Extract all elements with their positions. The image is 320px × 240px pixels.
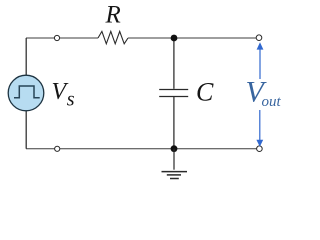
- label Vout: [246, 76, 282, 110]
- terminal top-left: [54, 35, 59, 40]
- svg-text:s: s: [67, 89, 75, 111]
- label Vs: [52, 79, 75, 111]
- terminal bottom-right: [257, 146, 263, 152]
- node A top (R-C junction): [171, 35, 178, 42]
- svg-text:C: C: [196, 77, 214, 106]
- source Vs (square-wave generator): [8, 75, 44, 111]
- wire top horizontal: [26, 37, 256, 39]
- Vout arrow upper (points up): [257, 42, 264, 79]
- svg-text:out: out: [262, 94, 282, 110]
- capacitor C: [159, 90, 188, 97]
- label R: [105, 1, 121, 28]
- label C: [196, 77, 214, 106]
- wire bottom horizontal: [26, 148, 257, 150]
- ground: [162, 149, 188, 179]
- node B bottom (C-ground junction): [171, 145, 178, 152]
- wire left vertical: [25, 38, 27, 149]
- wire capacitor branch upper: [173, 38, 175, 89]
- terminal bottom-left: [55, 146, 60, 151]
- svg-text:R: R: [105, 1, 121, 28]
- resistor R: [98, 31, 128, 43]
- Vout arrow lower (points down): [256, 110, 263, 147]
- wire capacitor branch lower: [173, 97, 175, 149]
- terminal top-right: [256, 35, 262, 41]
